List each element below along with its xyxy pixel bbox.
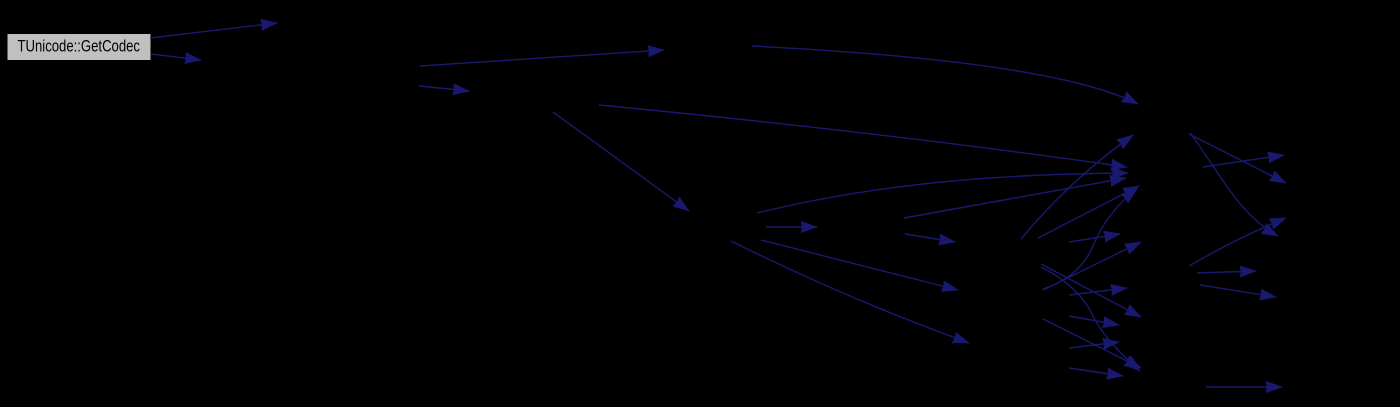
wire HT2 [1069, 316, 1119, 325]
wire E6 [599, 105, 1127, 167]
wire E23 [1197, 271, 1256, 273]
wire E3 [420, 50, 664, 66]
wire H2 [1069, 288, 1127, 295]
wire H1 [1069, 234, 1120, 242]
wire E24 [1200, 285, 1276, 297]
wire E10 [761, 240, 958, 290]
wire E21 [1203, 155, 1284, 167]
wire E20 [1190, 133, 1278, 236]
wire E14 [1021, 135, 1133, 239]
wire E11 [731, 241, 969, 343]
wire E4 [419, 86, 469, 91]
wire E5 [553, 112, 689, 211]
wire E15 [1038, 186, 1139, 238]
wire E13 [905, 234, 955, 242]
wire E19 [1189, 134, 1286, 183]
wire E1 [150, 23, 277, 38]
wire E25 [1206, 386, 1282, 388]
wire D1 [1041, 264, 1141, 317]
wire E2 [151, 54, 201, 60]
wire E22 [1189, 218, 1286, 266]
wire E9 [766, 226, 817, 228]
wire E17 [1041, 267, 1140, 371]
wire E7 [752, 46, 1138, 104]
wire E16 [1043, 189, 1137, 289]
wire E12 [904, 178, 1126, 218]
wire E8 [757, 173, 1128, 213]
wire H3 [1069, 342, 1119, 348]
node TUnicode::GetCodec [7, 34, 151, 61]
wire H4 [1069, 368, 1123, 376]
wire E18 [1043, 319, 1141, 368]
svg-text:TUnicode::GetCodec: TUnicode::GetCodec [18, 37, 141, 56]
wire U1 [1043, 242, 1141, 290]
